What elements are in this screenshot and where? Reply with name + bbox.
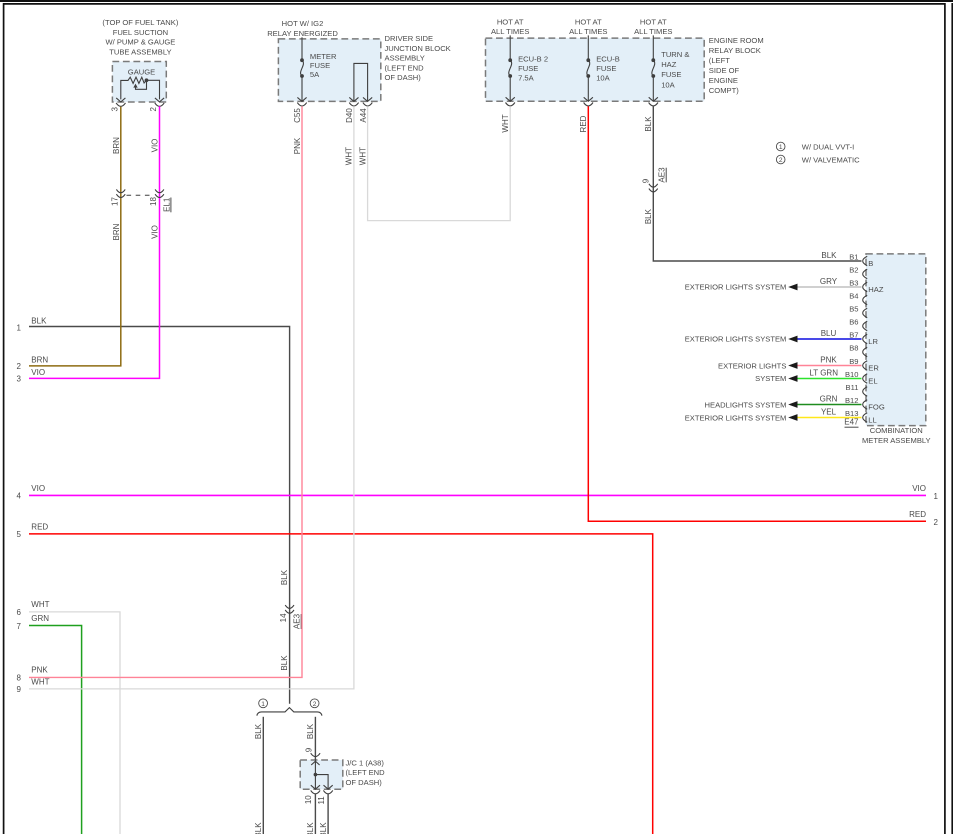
pin number 11 bbox=[317, 796, 326, 805]
connector pin 10 at J/C 1 bbox=[311, 790, 320, 793]
svg-text:BLK: BLK bbox=[306, 822, 315, 834]
svg-text:ECU-B: ECU-B bbox=[596, 55, 620, 64]
junction connector J/C 1 (A38) box bbox=[300, 760, 343, 789]
wire GRN to system (pin B12) bbox=[788, 401, 861, 408]
svg-text:7: 7 bbox=[17, 622, 22, 631]
svg-text:A44: A44 bbox=[359, 108, 368, 123]
wire WHT from A44 to ECU-B 2 fuse bbox=[368, 106, 511, 220]
svg-text:RELAY BLOCK: RELAY BLOCK bbox=[709, 46, 761, 55]
svg-text:VIO: VIO bbox=[31, 368, 45, 377]
svg-text:BLK: BLK bbox=[306, 723, 315, 739]
svg-text:B9: B9 bbox=[849, 357, 858, 366]
combination meter pin connectors B1-B13 bbox=[863, 256, 868, 422]
svg-text:HOT AT: HOT AT bbox=[497, 18, 524, 27]
svg-text:(LEFT END: (LEFT END bbox=[346, 768, 386, 777]
svg-text:B8: B8 bbox=[849, 344, 858, 353]
wire LT GRN to system (pin B10) bbox=[788, 375, 861, 382]
wire label BLK pin10 bottom bbox=[306, 822, 315, 834]
svg-text:2: 2 bbox=[779, 157, 783, 164]
svg-text:BLU: BLU bbox=[821, 329, 837, 338]
label hot at all times 2 bbox=[569, 18, 607, 36]
connector number 8 bbox=[17, 674, 22, 683]
svg-text:GRY: GRY bbox=[820, 277, 838, 286]
svg-text:FOG: FOG bbox=[868, 402, 885, 411]
wire label BLK vertical upper bbox=[280, 569, 289, 585]
connector number 1 bbox=[17, 323, 22, 332]
pin label B9 bbox=[849, 357, 858, 366]
svg-text:B: B bbox=[868, 259, 873, 268]
svg-text:ALL TIMES: ALL TIMES bbox=[491, 27, 529, 36]
wire BRN from connector 2 to gauge pin 3 bbox=[29, 107, 121, 366]
svg-text:C55: C55 bbox=[293, 108, 302, 123]
meter internal label HAZ bbox=[868, 285, 884, 294]
label hot at all times 3 bbox=[634, 18, 672, 36]
pin label B11 bbox=[846, 383, 859, 392]
wire label GRN bbox=[820, 394, 838, 403]
meter internal label B bbox=[868, 259, 873, 268]
svg-text:JUNCTION BLOCK: JUNCTION BLOCK bbox=[385, 44, 451, 53]
meter internal label FOG bbox=[868, 402, 885, 411]
svg-text:BLK: BLK bbox=[254, 723, 263, 739]
svg-text:BRN: BRN bbox=[31, 355, 48, 364]
option number 1 circled bbox=[259, 699, 268, 708]
svg-text:ENGINE: ENGINE bbox=[709, 76, 738, 85]
svg-text:B1: B1 bbox=[849, 253, 858, 262]
connector EL1 pin 17 on BRN bbox=[116, 189, 125, 197]
pin D40 connector bbox=[349, 103, 358, 106]
svg-text:GAUGE: GAUGE bbox=[128, 68, 155, 77]
svg-text:ALL TIMES: ALL TIMES bbox=[634, 27, 672, 36]
pin label B2 bbox=[849, 266, 858, 275]
svg-text:1: 1 bbox=[779, 144, 783, 151]
pin label A44 bbox=[359, 108, 368, 123]
wire YEL to system (pin B13) bbox=[788, 414, 861, 421]
wire RED from connector 5 down at right bbox=[29, 534, 653, 834]
svg-text:EXTERIOR LIGHTS SYSTEM: EXTERIOR LIGHTS SYSTEM bbox=[685, 413, 787, 422]
wire label RED right bbox=[909, 510, 926, 519]
label combination meter assembly bbox=[862, 426, 931, 445]
top border line bbox=[0, 0, 953, 2]
pin number 2 bbox=[149, 107, 158, 112]
pin A44 connector bbox=[363, 103, 372, 106]
wire GRN from connector 7 down bbox=[29, 626, 82, 834]
svg-text:ASSEMBLY: ASSEMBLY bbox=[385, 54, 425, 63]
svg-text:1: 1 bbox=[17, 323, 22, 332]
svg-text:YEL: YEL bbox=[821, 407, 837, 416]
pin number 18 bbox=[149, 197, 158, 206]
svg-text:BLK: BLK bbox=[821, 251, 837, 260]
label exterior lights system (B7) bbox=[685, 335, 787, 344]
svg-text:WHT: WHT bbox=[31, 600, 49, 609]
engine room pin connectors bbox=[506, 103, 659, 106]
svg-text:1: 1 bbox=[261, 701, 265, 708]
wire label BLK option1 bbox=[254, 723, 263, 739]
pin label B6 bbox=[849, 318, 858, 327]
svg-text:EXTERIOR LIGHTS: EXTERIOR LIGHTS bbox=[718, 361, 786, 370]
wire label BRN bbox=[31, 355, 48, 364]
dashed link between 17 and 18 bbox=[127, 194, 155, 196]
wire label BLK bbox=[31, 317, 47, 326]
svg-text:8: 8 bbox=[17, 674, 22, 683]
wire BLK from J/C pin 10 to bottom bbox=[314, 794, 316, 834]
wire label BLU bbox=[821, 329, 837, 338]
svg-text:VIO: VIO bbox=[150, 225, 159, 239]
svg-text:WHT: WHT bbox=[345, 147, 354, 165]
svg-text:BLK: BLK bbox=[280, 655, 289, 671]
meter connector number 1 bbox=[934, 492, 939, 501]
connector name EL1 bbox=[162, 197, 171, 212]
svg-text:HOT AT: HOT AT bbox=[640, 18, 667, 27]
svg-text:9: 9 bbox=[17, 685, 22, 694]
svg-text:B13: B13 bbox=[845, 409, 859, 418]
wire label PNK bbox=[820, 355, 837, 364]
option number 2 circled bbox=[310, 699, 319, 708]
svg-text:WHT: WHT bbox=[358, 147, 367, 165]
wire label PNK bbox=[31, 665, 48, 674]
wire label BRN vertical upper bbox=[112, 137, 121, 154]
svg-text:7.5A: 7.5A bbox=[518, 73, 535, 82]
gauge pin 2 connector bbox=[155, 103, 164, 106]
svg-text:B11: B11 bbox=[846, 383, 859, 392]
pin label B5 bbox=[849, 305, 858, 314]
svg-text:BLK: BLK bbox=[254, 822, 263, 834]
connector name AE3 bbox=[293, 613, 302, 629]
connector number 3 bbox=[17, 375, 22, 384]
svg-text:BLK: BLK bbox=[644, 116, 653, 132]
fuse ECU-B 2 7.5A bbox=[506, 35, 548, 101]
fuse TURN & HAZ 10A bbox=[649, 35, 690, 101]
svg-text:OF DASH): OF DASH) bbox=[385, 73, 422, 82]
wire label GRN bbox=[31, 614, 49, 623]
svg-text:18: 18 bbox=[149, 197, 158, 206]
wire label RED left bbox=[31, 523, 48, 532]
svg-text:FUSE: FUSE bbox=[596, 64, 616, 73]
svg-text:ER: ER bbox=[868, 363, 879, 372]
wire WHT from connector 6 down bbox=[29, 612, 120, 834]
connector EL1 pin 18 on VIO bbox=[155, 189, 164, 197]
connector 9 AE3 on TURN/HAZ BLK bbox=[649, 184, 658, 192]
svg-text:RED: RED bbox=[909, 510, 926, 519]
svg-text:VIO: VIO bbox=[912, 484, 926, 493]
svg-text:FUSE: FUSE bbox=[310, 61, 330, 70]
svg-text:GRN: GRN bbox=[820, 394, 838, 403]
wire BLK from TURN & HAZ fuse to meter pin B1 bbox=[653, 106, 861, 261]
svg-text:B12: B12 bbox=[845, 396, 859, 405]
svg-text:AE3: AE3 bbox=[293, 613, 302, 629]
svg-text:9: 9 bbox=[642, 178, 651, 183]
wire label VIO bbox=[31, 368, 45, 377]
svg-text:B10: B10 bbox=[845, 370, 859, 379]
svg-text:BLK: BLK bbox=[31, 317, 47, 326]
svg-text:LL: LL bbox=[868, 415, 876, 424]
wire label BLK option2 bbox=[306, 723, 315, 739]
J/C 1 internal junction bbox=[311, 760, 333, 789]
pin label B3 bbox=[849, 279, 858, 288]
wire label GRY bbox=[820, 277, 838, 286]
wire RED from ECU-B fuse to meter connector 2 bbox=[588, 106, 926, 521]
svg-text:EXTERIOR LIGHTS SYSTEM: EXTERIOR LIGHTS SYSTEM bbox=[685, 335, 787, 344]
connector number 5 bbox=[17, 530, 22, 539]
svg-text:B6: B6 bbox=[849, 318, 858, 327]
wire label BLK option1 bottom bbox=[254, 822, 263, 834]
svg-text:3: 3 bbox=[17, 375, 22, 384]
wire WHT from connector 9 to junction block D40 bbox=[29, 106, 354, 689]
label fuel tank header bbox=[102, 18, 178, 56]
wire label BLK vertical lower bbox=[280, 655, 289, 671]
svg-text:W/ VALVEMATIC: W/ VALVEMATIC bbox=[802, 155, 860, 164]
svg-text:RED: RED bbox=[31, 523, 48, 532]
pin C55 connector bbox=[297, 103, 306, 106]
wire GRY to system (pin B3) bbox=[788, 284, 861, 291]
note 1: W/ DUAL VVT-I bbox=[776, 142, 854, 151]
svg-text:D40: D40 bbox=[345, 108, 354, 123]
gauge pin 3 connector bbox=[116, 103, 125, 106]
svg-text:COMBINATION: COMBINATION bbox=[870, 426, 923, 435]
svg-text:VIO: VIO bbox=[31, 484, 45, 493]
label hot w/ ig2 bbox=[267, 19, 338, 38]
svg-text:TUBE ASSEMBLY: TUBE ASSEMBLY bbox=[109, 48, 171, 57]
bus bar D40/A44 bbox=[349, 63, 372, 101]
wire label BRN vertical lower bbox=[112, 223, 121, 240]
svg-text:BRN: BRN bbox=[112, 223, 121, 240]
wire label VIO vertical upper bbox=[150, 139, 159, 153]
pin number 17 bbox=[111, 197, 120, 206]
connector 14 AE3 on BLK wire bbox=[285, 605, 294, 613]
svg-text:6: 6 bbox=[17, 608, 22, 617]
wire label WHT vertical A44 bbox=[358, 147, 367, 165]
svg-text:FUEL SUCTION: FUEL SUCTION bbox=[113, 28, 168, 37]
svg-text:SYSTEM: SYSTEM bbox=[755, 374, 786, 383]
svg-text:2: 2 bbox=[934, 518, 939, 527]
svg-text:SIDE OF: SIDE OF bbox=[709, 66, 740, 75]
meter internal label LR bbox=[868, 337, 878, 346]
wire label PNK vertical bbox=[293, 137, 302, 154]
svg-text:LT GRN: LT GRN bbox=[809, 368, 838, 377]
wire BLK from J/C pin 11 to bottom bbox=[327, 794, 329, 834]
svg-text:TURN &: TURN & bbox=[661, 50, 689, 59]
pin label B1 bbox=[849, 253, 858, 262]
svg-text:WHT: WHT bbox=[31, 678, 49, 687]
svg-text:LR: LR bbox=[868, 337, 878, 346]
fuse METER 5A bbox=[297, 37, 337, 101]
wire PNK from connector 8 to meter fuse C55 bbox=[29, 106, 302, 677]
svg-text:HAZ: HAZ bbox=[661, 60, 677, 69]
connector number 7 bbox=[17, 622, 22, 631]
wire label BLK near B1 bbox=[821, 251, 837, 260]
svg-text:2: 2 bbox=[17, 362, 22, 371]
svg-text:10A: 10A bbox=[596, 73, 610, 82]
wire label WHT vertical ECU-B 2 bbox=[501, 114, 510, 132]
wire BLK option 2 to J/C 1 pin 9 bbox=[314, 717, 316, 760]
svg-text:HOT AT: HOT AT bbox=[575, 18, 602, 27]
fuse ECU-B 10A bbox=[584, 35, 620, 101]
svg-text:1: 1 bbox=[934, 492, 939, 501]
label exterior lights system (B9/B10) bbox=[718, 361, 786, 382]
label engine room relay block bbox=[709, 36, 764, 95]
svg-text:ECU-B 2: ECU-B 2 bbox=[518, 55, 548, 64]
svg-text:2: 2 bbox=[149, 107, 158, 112]
connector number 4 bbox=[17, 492, 22, 501]
svg-text:BRN: BRN bbox=[112, 137, 121, 154]
right edge line bbox=[951, 3, 953, 834]
pin label B13 bbox=[845, 409, 859, 418]
wire label RED vertical bbox=[579, 115, 588, 132]
svg-text:B2: B2 bbox=[849, 266, 858, 275]
svg-text:E47: E47 bbox=[844, 418, 859, 427]
wire PNK to system (pin B9) bbox=[788, 362, 861, 369]
pin label B10 bbox=[845, 370, 859, 379]
label driver side junction block bbox=[385, 34, 451, 82]
meter internal label EL bbox=[868, 376, 877, 385]
wire label WHT vertical D40 bbox=[345, 147, 354, 165]
svg-text:B3: B3 bbox=[849, 279, 858, 288]
wire label VIO left bbox=[31, 484, 45, 493]
label exterior lights system (B3) bbox=[685, 283, 787, 292]
svg-text:DRIVER SIDE: DRIVER SIDE bbox=[385, 34, 434, 43]
meter internal label LL bbox=[868, 415, 876, 424]
wire BLK from connector 1 to options split bbox=[29, 327, 290, 704]
wire BLK option 1 to bottom bbox=[262, 717, 264, 834]
svg-text:GRN: GRN bbox=[31, 614, 49, 623]
pin number 10 bbox=[304, 795, 313, 804]
svg-text:PNK: PNK bbox=[293, 137, 302, 154]
label hot at all times 1 bbox=[491, 18, 529, 36]
svg-text:PNK: PNK bbox=[820, 355, 837, 364]
wire label BLK vertical TURN/HAZ upper bbox=[644, 116, 653, 132]
svg-text:EXTERIOR LIGHTS SYSTEM: EXTERIOR LIGHTS SYSTEM bbox=[685, 283, 787, 292]
pin number 9 AE3 bbox=[642, 178, 651, 183]
label j/c 1 (a38) bbox=[346, 759, 386, 787]
svg-text:ALL TIMES: ALL TIMES bbox=[569, 27, 607, 36]
svg-text:(LEFT: (LEFT bbox=[709, 56, 730, 65]
combination meter assembly box bbox=[866, 254, 926, 426]
wire label YEL bbox=[821, 407, 837, 416]
svg-text:B7: B7 bbox=[849, 331, 858, 340]
svg-text:B4: B4 bbox=[849, 292, 858, 301]
svg-text:17: 17 bbox=[111, 197, 120, 206]
pin label C55 bbox=[293, 108, 302, 123]
svg-text:RED: RED bbox=[579, 115, 588, 132]
svg-text:10: 10 bbox=[304, 795, 313, 804]
svg-text:EL1: EL1 bbox=[162, 197, 171, 212]
svg-text:FUSE: FUSE bbox=[661, 70, 681, 79]
svg-text:EL: EL bbox=[868, 376, 877, 385]
svg-text:BLK: BLK bbox=[644, 208, 653, 224]
meter connector number 2 bbox=[934, 518, 939, 527]
wire BLU to system (pin B7) bbox=[788, 336, 861, 343]
svg-text:METER ASSEMBLY: METER ASSEMBLY bbox=[862, 436, 931, 445]
svg-text:11: 11 bbox=[317, 796, 326, 805]
svg-text:W/ PUMP & GAUGE: W/ PUMP & GAUGE bbox=[105, 38, 175, 47]
svg-text:14: 14 bbox=[279, 613, 288, 622]
label headlights system (B12) bbox=[705, 400, 787, 409]
connector name AE3 (turn/haz) bbox=[658, 167, 667, 183]
wire label BLK pin11 bottom bbox=[319, 822, 328, 834]
pin number 14 bbox=[279, 613, 288, 622]
svg-text:VIO: VIO bbox=[150, 139, 159, 153]
connector number 6 bbox=[17, 608, 22, 617]
pin label B8 bbox=[849, 344, 858, 353]
pin label B4 bbox=[849, 292, 858, 301]
svg-text:2: 2 bbox=[313, 701, 317, 708]
svg-text:PNK: PNK bbox=[31, 665, 48, 674]
svg-text:10A: 10A bbox=[661, 80, 675, 89]
svg-text:BLK: BLK bbox=[280, 569, 289, 585]
svg-text:HEADLIGHTS SYSTEM: HEADLIGHTS SYSTEM bbox=[705, 400, 787, 409]
svg-text:BLK: BLK bbox=[319, 822, 328, 834]
fuel gauge sender box (top of fuel tank) bbox=[112, 62, 166, 103]
pin number 3 bbox=[110, 107, 119, 112]
wire VIO from connector 4 to meter connector 1 bbox=[29, 494, 926, 496]
engine room relay block box bbox=[486, 38, 705, 101]
svg-text:J/C 1 (A38): J/C 1 (A38) bbox=[346, 759, 385, 768]
svg-text:RELAY ENERGIZED: RELAY ENERGIZED bbox=[267, 29, 338, 38]
svg-text:FUSE: FUSE bbox=[518, 64, 538, 73]
pin label B7 bbox=[849, 331, 858, 340]
pin label B12 bbox=[845, 396, 859, 405]
driver side junction block box bbox=[278, 39, 380, 102]
fuel gauge sender unit (variable resistor with wiper) bbox=[116, 68, 164, 102]
svg-text:ENGINE ROOM: ENGINE ROOM bbox=[709, 36, 764, 45]
svg-text:9: 9 bbox=[304, 747, 313, 752]
wire label WHT bbox=[31, 600, 49, 609]
connector name E47 bbox=[844, 418, 859, 428]
svg-text:HAZ: HAZ bbox=[868, 285, 884, 294]
note 2: W/ VALVEMATIC bbox=[776, 155, 860, 164]
svg-text:B5: B5 bbox=[849, 305, 858, 314]
svg-text:OF DASH): OF DASH) bbox=[346, 778, 383, 787]
svg-text:5A: 5A bbox=[310, 70, 320, 79]
svg-text:COMPT): COMPT) bbox=[709, 86, 739, 95]
connector number 9 bbox=[17, 685, 22, 694]
connector pin 11 at J/C 1 bbox=[323, 790, 332, 793]
wire VIO from connector 3 to gauge pin 2 bbox=[29, 106, 160, 378]
svg-text:5: 5 bbox=[17, 530, 22, 539]
pin label D40 bbox=[345, 108, 354, 123]
meter internal label ER bbox=[868, 363, 879, 372]
pin number 9 at J/C bbox=[304, 747, 313, 752]
wire label LT GRN bbox=[809, 368, 838, 377]
wire label BLK vertical TURN/HAZ lower bbox=[644, 208, 653, 224]
svg-text:WHT: WHT bbox=[501, 114, 510, 132]
connector pin 9 at J/C 1 bbox=[311, 753, 320, 756]
options split (1)/(2) on BLK wire bbox=[257, 708, 322, 716]
svg-text:HOT W/ IG2: HOT W/ IG2 bbox=[282, 19, 324, 28]
svg-text:4: 4 bbox=[17, 492, 22, 501]
svg-text:(TOP OF FUEL TANK): (TOP OF FUEL TANK) bbox=[102, 18, 178, 27]
svg-text:AE3: AE3 bbox=[658, 167, 667, 183]
svg-text:METER: METER bbox=[310, 52, 337, 61]
svg-text:3: 3 bbox=[110, 107, 119, 112]
wire label VIO right bbox=[912, 484, 926, 493]
label exterior lights system (B13) bbox=[685, 413, 787, 422]
connector number 2 bbox=[17, 362, 22, 371]
svg-text:W/ DUAL VVT-I: W/ DUAL VVT-I bbox=[802, 142, 854, 151]
wire label WHT 9 bbox=[31, 678, 49, 687]
wire label VIO vertical lower bbox=[150, 225, 159, 239]
svg-text:(LEFT END: (LEFT END bbox=[385, 63, 425, 72]
